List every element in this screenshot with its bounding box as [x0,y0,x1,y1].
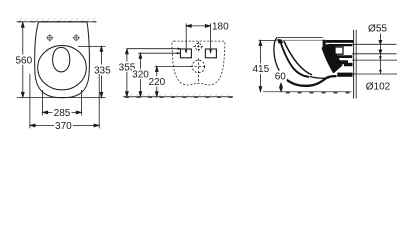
outlet socket right bar (black) [344,63,353,67]
WC outer profile (front + underside) [274,38,280,72]
dim 415 line [259,41,262,92]
pipe line Ø102 top [352,59,397,61]
dim 320 line [139,53,142,96]
fixing hole right (arrow tip) [209,50,212,54]
fixing square right [205,49,216,58]
wall line 2 (side view) [355,30,357,99]
dim 370 label [54,120,73,131]
trap diagonal (black) [322,44,343,74]
bottom extension line (left view) [17,97,106,99]
bottom extension line (side view) with hatch ticks [263,91,352,93]
dim 355 line [126,49,129,97]
svg-text:370: 370 [55,121,72,132]
inlet socket (black C) [331,44,352,58]
inlet valve box [335,47,343,54]
WC body outline (top view) [35,22,90,98]
svg-text:560: 560 [15,56,32,67]
dim 220 label [148,76,165,87]
dim 285 label [53,107,72,118]
dim 220 line [155,67,158,97]
dim 335 line [100,46,103,97]
fixing square left [180,49,191,58]
dim 60 line [280,83,283,92]
outlet bore (white) [345,66,353,72]
dim 370 extension lines [29,74,31,128]
flush channel cap (black) [326,40,354,43]
dim 560 label [16,55,33,66]
floor hatch (middle view) [123,94,233,97]
wall line (side view) [353,30,355,99]
seat rear vertical bar (black) [323,40,326,48]
ext line 320 (to fixing hole centre) [138,52,180,54]
ext line 220 (to outlet centre) [155,65,192,67]
svg-text:320: 320 [132,70,149,81]
pipe line Ø102 bottom [352,73,397,75]
bowl inner wall (section, thick) [281,42,310,77]
dim Ø102 arrows [379,56,382,74]
outlet socket bottom bar (black) [337,73,352,77]
dim 335 extension (top) [78,46,106,48]
svg-text:180: 180 [212,22,229,33]
outlet socket top bar (black) [336,60,349,64]
dim 415 label [252,63,269,74]
dim 285 extension lines [42,90,44,115]
seat ring outer (top view) [38,45,87,89]
outlet circle (dashed) [190,58,206,81]
wall hatch (left view) [17,18,97,21]
svg-text:285: 285 [54,108,71,119]
dim 60 label [274,71,287,81]
fixing hole left (arrow tip) [185,50,188,54]
svg-text:415: 415 [252,64,269,75]
floor line (middle view) [123,96,233,98]
rear view dashed outline [172,41,225,85]
dim 320 label [132,69,149,80]
water inlet circle (dashed) [193,42,203,52]
front rim section (black) [277,39,283,44]
dim 370 line with arrows [30,124,99,127]
wall line (left view) [17,21,97,23]
dim 335 label [94,65,112,76]
ceramic rim line [276,39,324,41]
svg-text:Ø102: Ø102 [366,82,391,93]
ext line 355 (to left fixing hole) [127,48,181,50]
svg-text:220: 220 [148,77,165,88]
dim 180 extension lines [185,23,187,52]
415 top extension line [259,39,276,41]
dim 180 line with arrows [186,25,210,28]
dim 285 line with arrows [43,111,81,114]
pipe line Ø55 bottom [352,53,397,55]
trap channel bottom line [310,77,330,79]
dim 355 label [119,62,136,73]
dim Ø55 arrows [379,34,382,74]
svg-text:335: 335 [94,66,111,77]
WC underside (thick) [280,72,337,86]
pipe line Ø55 top [352,43,397,45]
hinge hole right (crossed circle) [73,34,80,41]
svg-text:60: 60 [275,72,287,83]
bowl back wall (section) [284,41,312,75]
seat top line [277,36,323,38]
dim 560 line [21,22,24,97]
hinge hole left (crossed circle) [46,34,53,41]
svg-text:Ø55: Ø55 [368,24,387,35]
inner bowl (top view) [53,47,70,72]
